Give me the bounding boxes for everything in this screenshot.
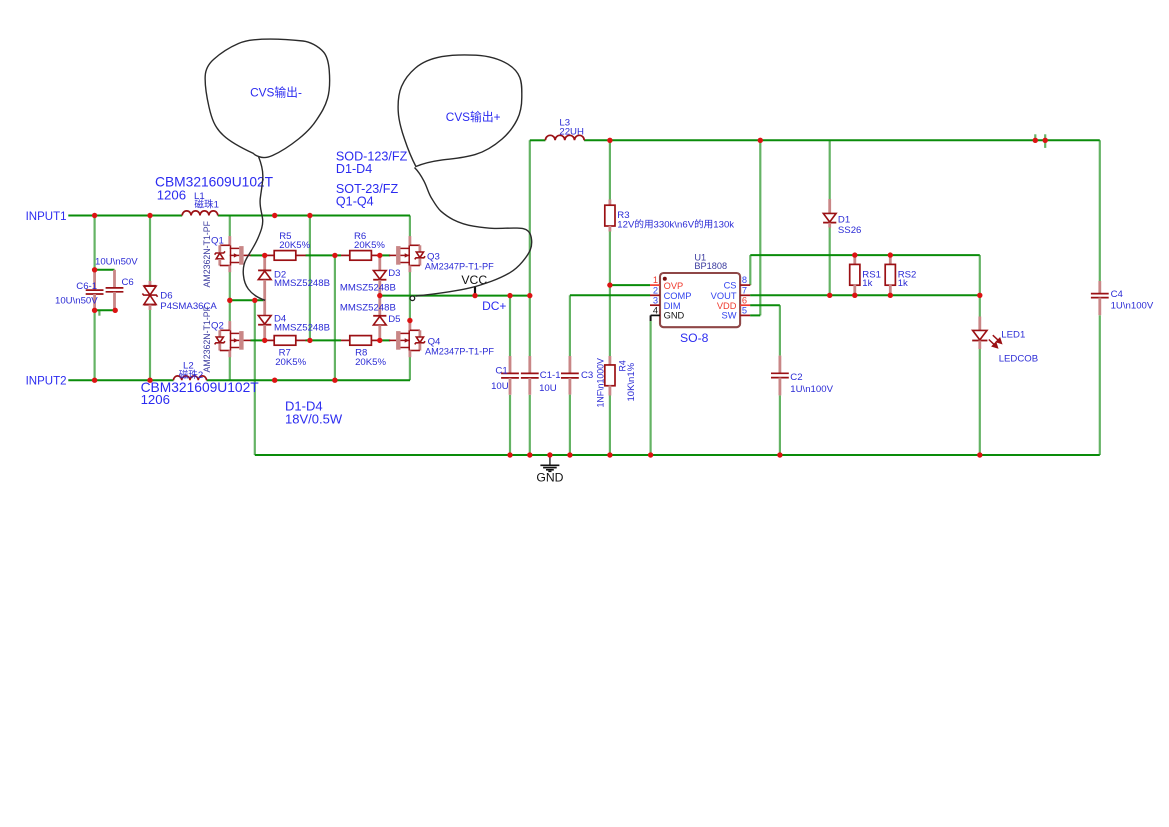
resistor R5: [265, 254, 274, 256]
wire INPUT1 rail: [68, 215, 182, 217]
svg-text:VDD: VDD: [717, 301, 737, 311]
junction dots INPUT1 rail: [92, 213, 97, 218]
svg-text:SO-8: SO-8: [680, 331, 709, 345]
svg-text:COMP: COMP: [664, 291, 692, 301]
svg-text:AM2362N-T1-PF: AM2362N-T1-PF: [202, 305, 212, 372]
junction dots R5 row: [262, 253, 267, 258]
callout balloon CVS output plus: [398, 55, 522, 167]
zener diode D4: [263, 300, 266, 315]
junction dot Q4 drain node: [407, 318, 412, 323]
svg-text:1U\n100V: 1U\n100V: [1111, 300, 1154, 311]
svg-text:磁珠1: 磁珠1: [194, 199, 219, 211]
svg-text:INPUT2: INPUT2: [26, 376, 67, 388]
inductor L1: [182, 211, 218, 216]
svg-text:1k: 1k: [898, 278, 908, 289]
wire R3 branch upper: [609, 140, 611, 199]
wire R3 to OVP node: [609, 232, 611, 286]
svg-text:D6: D6: [160, 290, 172, 301]
svg-text:DC+: DC+: [482, 299, 506, 313]
wire Q4 source to INPUT2: [409, 356, 411, 380]
svg-text:OVP: OVP: [664, 281, 684, 291]
svg-text:20K5%: 20K5%: [275, 357, 306, 368]
svg-text:1: 1: [653, 275, 658, 285]
svg-text:3: 3: [653, 295, 658, 305]
junction dots VOUT rail: [827, 293, 832, 298]
wire R4 to ground: [609, 285, 611, 356]
resistor R8: [341, 339, 350, 341]
junction dots C6 links: [92, 267, 97, 272]
capacitor C2: [779, 356, 782, 374]
svg-text:20K5%: 20K5%: [355, 357, 386, 368]
U1 pin 4 GND: [651, 314, 660, 316]
wire C6 bottom link: [95, 309, 116, 311]
svg-text:GND: GND: [536, 471, 563, 485]
svg-text:D1-D4: D1-D4: [336, 162, 372, 176]
wire Q2 source to INPUT2: [229, 357, 231, 380]
wire VDD pin 6 link: [750, 304, 780, 306]
resistor RS1: [853, 255, 856, 265]
U1 pin 7 VOUT: [740, 294, 750, 296]
svg-text:Q1-Q4: Q1-Q4: [336, 194, 374, 208]
svg-text:D3: D3: [388, 268, 400, 279]
wire D1 branch: [829, 140, 831, 199]
inductor L2: [174, 376, 207, 380]
svg-text:20K5%: 20K5%: [279, 240, 310, 251]
U1 pin 1 OVP: [650, 284, 660, 286]
LED LED1: [978, 317, 981, 331]
capacitor C6-1: [93, 270, 96, 290]
svg-text:INPUT1: INPUT1: [26, 211, 67, 223]
capacitor C3: [569, 356, 572, 373]
svg-text:10U: 10U: [539, 383, 557, 394]
wire OVP node to pin 1: [610, 284, 650, 286]
zener diode D3: [378, 255, 381, 270]
power VCC symbol: [474, 286, 476, 295]
wire VDD drop to C2: [779, 305, 781, 355]
capacitor C6: [113, 270, 116, 288]
callout balloon CVS output minus: [205, 39, 330, 157]
wire R5 row segments: [250, 254, 264, 256]
svg-text:C6-1: C6-1: [76, 281, 97, 292]
transistor Q4: [408, 321, 411, 330]
svg-text:CS: CS: [724, 281, 737, 291]
wire INPUT1 to Q3 drain: [409, 216, 411, 239]
svg-text:C4: C4: [1111, 289, 1124, 300]
wire C6 branch upper: [93, 216, 95, 270]
resistor R6: [341, 254, 350, 256]
svg-text:D1: D1: [838, 215, 850, 226]
junction dots R7 row: [262, 338, 267, 343]
resistor R7: [265, 339, 274, 341]
svg-text:10K\n1%: 10K\n1%: [626, 362, 637, 401]
wire RS parallel right link: [979, 255, 981, 295]
svg-text:D5: D5: [388, 314, 400, 325]
svg-text:18V/0.5W: 18V/0.5W: [285, 412, 343, 427]
wire Q2 drain branch: [229, 300, 231, 321]
ground GND symbol: [549, 455, 551, 465]
svg-text:C1: C1: [495, 366, 507, 377]
junction dot OVP node: [607, 282, 612, 287]
wire bottom ground rail: [255, 454, 1100, 456]
svg-text:10U: 10U: [491, 381, 509, 392]
wire C4 branch: [1099, 140, 1101, 281]
capacitor C4: [1098, 281, 1101, 294]
wire stub at top rail B: [1044, 134, 1046, 148]
wire Q1 drain branch: [229, 216, 231, 237]
svg-text:VCC: VCC: [461, 273, 487, 287]
capacitor C1-1: [528, 356, 531, 373]
zener diode D5: [378, 296, 381, 316]
transistor Q1: [228, 236, 231, 245]
wire LED string: [979, 295, 981, 316]
wire stub at top rail A: [1034, 134, 1036, 140]
svg-text:C1-1: C1-1: [540, 370, 561, 381]
svg-text:1k: 1k: [862, 278, 872, 289]
wire branch R5 row to INPUT2: [334, 255, 336, 380]
wire D6 branch: [149, 216, 151, 282]
wire mid node to ground rail: [254, 300, 256, 455]
wire C1-1 branch: [529, 296, 531, 356]
svg-text:C2: C2: [790, 372, 802, 383]
U1 pin 8 CS: [740, 284, 750, 286]
svg-text:DIM: DIM: [664, 301, 681, 311]
svg-text:AM2347P-T1-PF: AM2347P-T1-PF: [425, 347, 494, 357]
junction dots mid node: [227, 298, 232, 303]
svg-text:MMSZ5248B: MMSZ5248B: [340, 282, 396, 293]
transistor Q2: [228, 321, 231, 330]
svg-text:C3: C3: [581, 370, 593, 381]
wire Q3 source / Q4 drain link: [409, 272, 411, 321]
op-amp U1 BP1808 body: [660, 273, 740, 327]
wire INPUT2 rail: [68, 379, 173, 381]
U1 pin 5 SW: [740, 314, 750, 316]
svg-text:SW: SW: [722, 311, 737, 321]
diode D1 SS26: [828, 199, 831, 213]
U1 pin 6 VDD: [740, 304, 750, 306]
resistor R4: [609, 356, 612, 365]
wire top rail: [584, 139, 1100, 141]
wire mid node horizontal: [230, 299, 265, 301]
wire C6 branch lower: [93, 310, 95, 380]
wire COMP to pin 2: [570, 294, 650, 296]
junction dots INPUT2 rail: [92, 378, 97, 383]
node open circle at DC+ crossing: [410, 296, 415, 301]
wire DC+ rail: [380, 295, 530, 297]
svg-text:5: 5: [742, 306, 747, 316]
junction dots top rail: [607, 138, 612, 143]
svg-text:BP1808: BP1808: [694, 261, 727, 271]
svg-text:6: 6: [742, 295, 747, 305]
svg-text:20K5%: 20K5%: [354, 240, 385, 251]
transistor Q3: [408, 236, 411, 245]
wire SW riser: [759, 140, 761, 315]
resistor R3: [609, 200, 612, 206]
wire SW pin 5 link: [750, 314, 760, 316]
svg-text:1206: 1206: [141, 392, 170, 407]
svg-text:MMSZ5248B: MMSZ5248B: [340, 303, 396, 314]
wire top rail left of L3: [530, 139, 546, 141]
svg-text:MMSZ5248B: MMSZ5248B: [274, 322, 330, 333]
svg-text:LEDCOB: LEDCOB: [999, 354, 1038, 365]
U1 pin 3 DIM: [650, 304, 660, 306]
svg-text:8: 8: [742, 275, 747, 285]
svg-text:10U\n50V: 10U\n50V: [55, 295, 98, 306]
wire C6 top link: [95, 269, 115, 271]
zener diode D2: [263, 255, 266, 270]
wire R7 row segments: [250, 339, 264, 341]
TVS diode D6: [149, 281, 152, 286]
wire VOUT rail: [750, 294, 980, 296]
svg-text:CVS输出+: CVS输出+: [446, 110, 501, 124]
wire COMP net vertical / C3 branch: [569, 295, 571, 357]
wire CS rail: [750, 254, 980, 256]
svg-text:Q1: Q1: [211, 236, 224, 247]
junction dots bottom rail: [507, 452, 512, 457]
wire C6-1 polarity tick: [98, 311, 100, 316]
wire branch INPUT1 to R7 row: [309, 216, 311, 341]
junction dots CS rail: [852, 252, 857, 257]
svg-text:22UH: 22UH: [559, 126, 584, 137]
svg-text:2: 2: [653, 285, 658, 295]
svg-text:12V的用330k\n6V的用130k: 12V的用330k\n6V的用130k: [617, 219, 734, 231]
U1 pin 1 marker dot: [663, 277, 667, 281]
wire DC+ riser to L3: [529, 140, 531, 295]
svg-text:CVS输出-: CVS输出-: [250, 85, 302, 99]
U1 pin 2 COMP: [650, 294, 660, 296]
wire pin 8 riser to CS rail: [749, 255, 751, 285]
wire Q1 source to mid node: [229, 272, 231, 300]
svg-text:AM2347P-T1-PF: AM2347P-T1-PF: [425, 261, 494, 271]
svg-text:4: 4: [653, 306, 658, 316]
svg-text:Q2: Q2: [211, 321, 224, 332]
svg-text:1206: 1206: [157, 188, 186, 203]
capacitor C1: [509, 356, 512, 373]
svg-text:VOUT: VOUT: [711, 291, 737, 301]
svg-text:SS26: SS26: [838, 225, 861, 236]
wire GND pin 4 drop: [650, 315, 652, 321]
junction dots DC+ rail: [377, 293, 382, 298]
svg-text:10U\n50V: 10U\n50V: [95, 256, 138, 267]
svg-text:MMSZ5248B: MMSZ5248B: [274, 278, 330, 289]
wire C1 branch: [509, 296, 511, 356]
svg-text:1U\n100V: 1U\n100V: [790, 384, 833, 395]
resistor RS2: [889, 255, 892, 265]
svg-text:GND: GND: [664, 311, 685, 321]
svg-text:AM2362N-T1-PF: AM2362N-T1-PF: [202, 220, 212, 287]
svg-text:C6: C6: [122, 277, 134, 288]
inductor L3: [545, 135, 584, 140]
svg-text:7: 7: [742, 285, 747, 295]
svg-text:LED1: LED1: [1001, 330, 1025, 341]
